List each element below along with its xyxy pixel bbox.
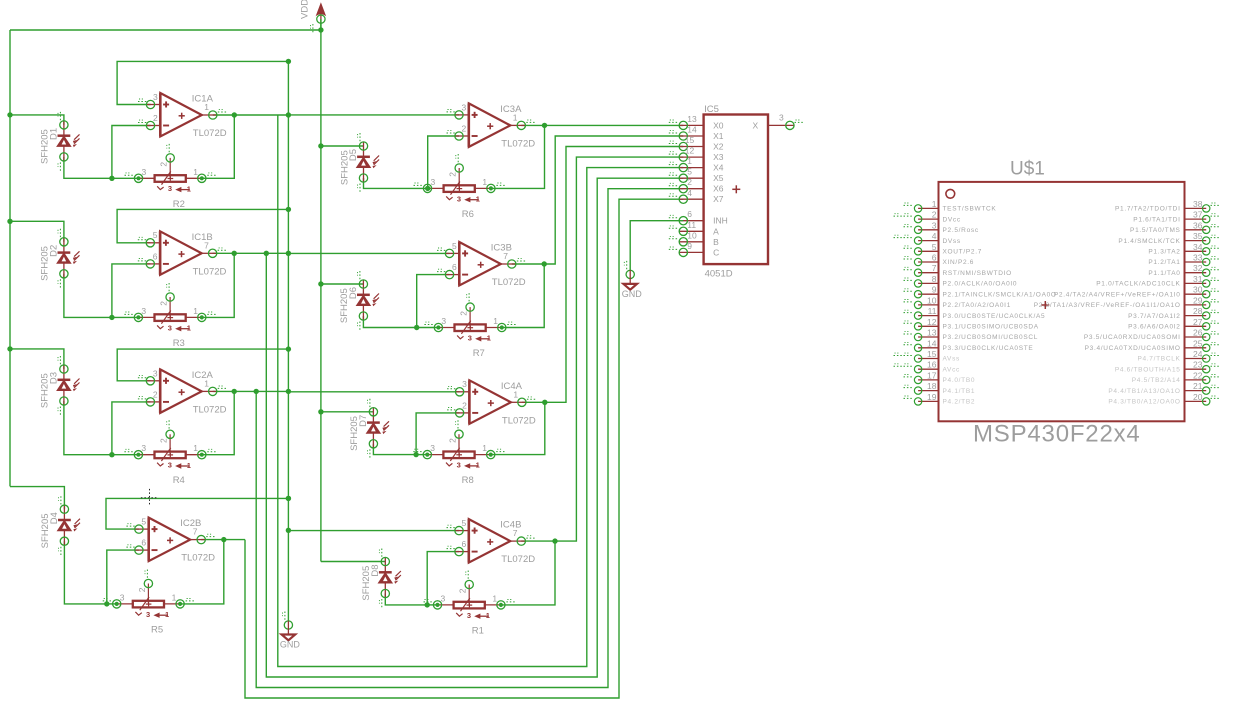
svg-text:P1.3/TA2: P1.3/TA2 [1148,249,1180,256]
svg-text:4051D: 4051D [705,269,733,280]
svg-text:P2.5/Rosc: P2.5/Rosc [943,227,979,234]
svg-text:D2: D2 [49,245,60,257]
svg-text:P3.3/UCB0CLK/UCA0STE: P3.3/UCB0CLK/UCA0STE [943,345,1034,352]
svg-text:U$1: U$1 [1010,159,1045,180]
svg-text:20: 20 [1193,392,1203,402]
svg-text:3: 3 [467,611,471,620]
svg-text:1: 1 [204,102,209,112]
svg-text:P1.6/TA1/TDI: P1.6/TA1/TDI [1133,216,1180,223]
svg-text:6: 6 [687,209,692,219]
svg-text:30: 30 [1193,285,1203,295]
svg-text:3: 3 [142,167,147,177]
svg-text:D5: D5 [348,149,359,161]
svg-text:5: 5 [141,517,146,527]
svg-text:12: 12 [927,317,937,327]
svg-text:D7: D7 [358,415,369,427]
svg-text:IC1B: IC1B [192,232,213,243]
svg-text:D6: D6 [348,287,359,299]
svg-text:1: 1 [187,461,191,470]
svg-text:5: 5 [153,230,158,240]
svg-text:P2.3/TA1/A3/VREF-/VeREF-/OA1I1: P2.3/TA1/A3/VREF-/VeREF-/OA1I1/OA1O [1034,302,1181,309]
svg-text:6: 6 [141,538,146,548]
svg-text:1: 1 [193,167,198,177]
svg-text:3: 3 [430,443,435,453]
svg-text:11: 11 [928,306,937,316]
svg-text:35: 35 [1193,231,1203,241]
svg-text:D4: D4 [49,512,60,524]
svg-text:37: 37 [1193,210,1203,220]
svg-text:DVss: DVss [943,238,961,245]
svg-text:11: 11 [687,220,696,230]
svg-text:IC4A: IC4A [501,381,523,392]
svg-text:5: 5 [687,167,692,177]
svg-text:P1.1/TA0: P1.1/TA0 [1148,270,1180,277]
svg-text:9: 9 [932,285,937,295]
svg-text:26: 26 [1193,328,1203,338]
svg-text:R2: R2 [173,199,185,210]
svg-text:R1: R1 [472,625,484,636]
svg-text:29: 29 [1193,295,1203,305]
svg-text:2: 2 [159,301,169,306]
svg-text:1: 1 [492,593,497,603]
svg-text:P1.4/SMCLK/TCK: P1.4/SMCLK/TCK [1118,238,1180,245]
svg-text:21: 21 [1193,381,1203,391]
svg-text:7: 7 [193,527,198,537]
svg-text:3: 3 [779,112,784,122]
svg-text:P3.0/UCB0STE/UCA0CLK/A5: P3.0/UCB0STE/UCA0CLK/A5 [943,313,1046,320]
svg-text:P3.5/UCA0RXD/UCA0SOMI: P3.5/UCA0RXD/UCA0SOMI [1084,334,1181,341]
svg-text:3: 3 [153,92,158,102]
svg-text:2: 2 [153,113,158,123]
svg-text:P2.4/TA2/A4/VREF+/VeREF+/OA1I0: P2.4/TA2/A4/VREF+/VeREF+/OA1I0 [1054,291,1181,298]
svg-text:3: 3 [168,323,172,332]
svg-text:B: B [713,237,719,247]
svg-text:3: 3 [168,461,172,470]
svg-text:R4: R4 [173,475,185,486]
svg-text:3: 3 [462,379,467,389]
svg-text:2: 2 [687,177,692,187]
svg-text:IC1A: IC1A [192,94,214,105]
svg-text:IC3A: IC3A [500,104,522,115]
svg-text:32: 32 [1193,263,1203,273]
svg-text:5: 5 [462,518,467,528]
svg-text:C: C [713,247,719,257]
svg-text:2: 2 [448,438,458,443]
svg-text:1: 1 [493,316,498,326]
svg-text:P1.0/TACLK/ADC10CLK: P1.0/TACLK/ADC10CLK [1096,281,1180,288]
svg-text:13: 13 [927,328,937,338]
svg-text:14: 14 [927,338,937,348]
svg-text:5: 5 [932,242,937,252]
svg-text:25: 25 [1193,338,1203,348]
svg-text:X4: X4 [713,163,724,173]
svg-text:2: 2 [462,124,467,134]
svg-text:1: 1 [204,378,209,388]
svg-text:P4.7/TBCLK: P4.7/TBCLK [1137,356,1180,363]
svg-text:D8: D8 [370,564,381,576]
svg-text:3: 3 [441,593,446,603]
svg-text:1: 1 [476,461,480,470]
svg-text:14: 14 [687,125,697,135]
svg-text:2: 2 [153,389,158,399]
svg-text:3: 3 [120,592,125,602]
svg-text:TL072D: TL072D [193,404,227,415]
svg-text:P3.6/A6/OA0I2: P3.6/A6/OA0I2 [1128,324,1180,331]
svg-text:4: 4 [932,231,937,241]
svg-text:22: 22 [1193,370,1203,380]
svg-text:TL072D: TL072D [181,553,215,564]
svg-text:2: 2 [458,588,468,593]
svg-text:3: 3 [168,184,172,193]
svg-text:VDD: VDD [299,0,310,19]
svg-text:3: 3 [141,306,146,316]
svg-text:5: 5 [452,241,457,251]
svg-text:31: 31 [1193,274,1203,284]
svg-text:12: 12 [685,146,695,156]
svg-text:7: 7 [503,251,508,261]
svg-text:1: 1 [487,334,491,343]
svg-text:TL072D: TL072D [502,415,536,426]
svg-text:TEST/SBWTCK: TEST/SBWTCK [943,206,997,213]
svg-text:R8: R8 [462,475,474,486]
svg-text:P3.4/UCA0TXD/UCA0SIMO: P3.4/UCA0TXD/UCA0SIMO [1085,345,1181,352]
svg-text:XOUT/P2.7: XOUT/P2.7 [943,249,983,256]
svg-text:16: 16 [927,360,937,370]
svg-text:P2.1/TAINCLK/SMCLK/A1/OA0O: P2.1/TAINCLK/SMCLK/A1/OA0O [943,291,1057,298]
svg-text:P4.5/TB2/A14: P4.5/TB2/A14 [1132,377,1181,384]
svg-text:P3.1/UCB0SIMO/UCB0SDA: P3.1/UCB0SIMO/UCB0SDA [943,324,1039,331]
svg-text:X1: X1 [713,131,724,141]
svg-text:X6: X6 [713,184,724,194]
svg-text:X5: X5 [713,173,724,183]
svg-text:X: X [753,120,759,130]
svg-text:1: 1 [513,112,518,122]
svg-text:18: 18 [927,381,937,391]
svg-text:33: 33 [1193,253,1203,263]
svg-text:10: 10 [927,295,937,305]
svg-text:3: 3 [932,220,937,230]
svg-text:IC2B: IC2B [180,518,201,529]
svg-text:1: 1 [932,199,937,209]
svg-text:IC3B: IC3B [491,243,512,254]
svg-text:TL072D: TL072D [501,138,535,149]
svg-text:15: 15 [927,349,937,359]
svg-text:23: 23 [1193,360,1203,370]
svg-text:X0: X0 [713,120,724,130]
svg-text:1: 1 [482,177,487,187]
svg-text:A: A [713,226,719,236]
svg-text:DVcc: DVcc [943,216,961,223]
svg-text:GND: GND [622,289,643,299]
svg-text:MSP430F22x4: MSP430F22x4 [973,421,1141,448]
svg-text:1: 1 [513,389,518,399]
svg-text:1: 1 [482,443,487,453]
svg-text:3: 3 [141,443,146,453]
svg-text:IC4B: IC4B [500,520,521,531]
svg-text:P3.2/UCB0SOMI/UCB0SCL: P3.2/UCB0SOMI/UCB0SCL [943,334,1039,341]
svg-text:1: 1 [193,443,198,453]
svg-text:3: 3 [457,194,461,203]
svg-text:X2: X2 [713,142,724,152]
svg-text:TL072D: TL072D [193,128,227,139]
svg-text:4: 4 [687,188,692,198]
svg-text:P1.7/TA2/TDO/TDI: P1.7/TA2/TDO/TDI [1115,206,1181,213]
svg-text:TL072D: TL072D [492,277,526,288]
svg-text:P4.4/TB1/A13/OA1O: P4.4/TB1/A13/OA1O [1108,388,1180,395]
svg-text:P4.6/TBOUTH/A15: P4.6/TBOUTH/A15 [1115,366,1181,373]
svg-text:IC5: IC5 [704,104,719,115]
svg-text:P2.2/TA0/A2/OA0I1: P2.2/TA0/A2/OA0I1 [943,302,1012,309]
svg-text:3: 3 [462,102,467,112]
svg-text:2: 2 [459,311,469,316]
svg-text:P4.0/TB0: P4.0/TB0 [943,377,976,384]
svg-text:2: 2 [159,438,169,443]
svg-text:P4.2/TB2: P4.2/TB2 [943,399,976,406]
svg-text:AVss: AVss [943,356,961,363]
svg-text:RST/NMI/SBWTDIO: RST/NMI/SBWTDIO [943,270,1012,277]
svg-text:3: 3 [431,177,436,187]
svg-text:R6: R6 [462,209,474,220]
svg-text:24: 24 [1193,349,1203,359]
svg-text:1: 1 [187,324,191,333]
svg-text:9: 9 [687,241,692,251]
svg-text:1: 1 [165,610,169,619]
svg-text:28: 28 [1193,306,1203,316]
svg-text:3: 3 [468,333,472,342]
svg-text:1: 1 [687,156,692,166]
svg-text:7: 7 [513,528,518,538]
svg-text:3: 3 [457,461,461,470]
svg-text:P1.2/TA1: P1.2/TA1 [1148,259,1180,266]
svg-text:P2.0/ACLK/A0/OA0I0: P2.0/ACLK/A0/OA0I0 [943,281,1018,288]
svg-text:R7: R7 [473,348,485,359]
svg-text:P1.5/TA0/TMS: P1.5/TA0/TMS [1130,227,1181,234]
svg-text:R3: R3 [173,338,185,349]
svg-text:2: 2 [462,400,467,410]
svg-text:AVcc: AVcc [943,366,961,373]
svg-text:2: 2 [159,162,169,167]
svg-text:TL072D: TL072D [501,554,535,565]
svg-text:2: 2 [137,587,147,592]
svg-text:1: 1 [172,592,177,602]
svg-text:13: 13 [687,114,697,124]
svg-text:INH: INH [713,216,728,226]
svg-text:IC2A: IC2A [192,370,214,381]
svg-text:1: 1 [476,195,480,204]
svg-text:1: 1 [193,306,198,316]
svg-text:8: 8 [932,274,937,284]
svg-text:2: 2 [448,172,458,177]
svg-text:D3: D3 [49,372,60,384]
svg-text:3: 3 [441,316,446,326]
svg-text:TL072D: TL072D [193,266,227,277]
svg-text:27: 27 [1193,317,1203,327]
svg-text:6: 6 [932,253,937,263]
svg-text:7: 7 [204,240,209,250]
svg-text:P3.7/A7/OA1I2: P3.7/A7/OA1I2 [1128,313,1180,320]
svg-text:38: 38 [1193,199,1203,209]
svg-text:P4.1/TB1: P4.1/TB1 [943,388,976,395]
svg-text:1: 1 [187,184,191,193]
svg-text:19: 19 [927,392,937,402]
svg-text:6: 6 [153,251,158,261]
svg-text:7: 7 [932,263,937,273]
svg-text:2: 2 [932,210,937,220]
svg-text:34: 34 [1193,242,1203,252]
svg-text:3: 3 [153,368,158,378]
svg-text:D1: D1 [49,128,60,140]
svg-text:X3: X3 [713,152,724,162]
svg-text:6: 6 [452,262,457,272]
svg-text:10: 10 [687,230,697,240]
svg-text:15: 15 [685,135,695,145]
svg-text:6: 6 [462,539,467,549]
svg-text:1: 1 [486,611,490,620]
svg-text:X7: X7 [713,194,724,204]
svg-text:XIN/P2.6: XIN/P2.6 [943,259,975,266]
svg-text:17: 17 [927,370,937,380]
svg-text:P4.3/TB0/A12/OA0O: P4.3/TB0/A12/OA0O [1108,399,1180,406]
svg-text:GND: GND [280,640,301,650]
svg-text:36: 36 [1193,220,1203,230]
svg-text:3: 3 [146,610,150,619]
svg-text:R5: R5 [151,624,163,635]
